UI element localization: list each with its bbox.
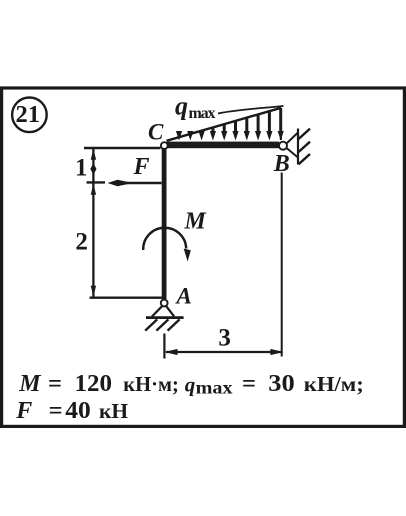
svg-text:q: q [175,92,188,121]
svg-text:1: 1 [75,155,88,182]
svg-text:30: 30 [268,371,295,397]
svg-text:F: F [15,398,32,424]
svg-text:кН·м;: кН·м; [123,372,179,396]
svg-text:=: = [49,398,63,424]
svg-text:21: 21 [16,101,41,128]
svg-text:F: F [133,154,150,180]
svg-text:кН: кН [99,399,128,423]
svg-text:кН/м;: кН/м; [304,372,364,396]
svg-text:q: q [185,373,196,397]
svg-text:M: M [184,209,208,235]
svg-text:max: max [196,378,233,398]
svg-text:120: 120 [75,371,113,397]
svg-text:2: 2 [75,229,88,256]
svg-text:M: M [18,371,42,397]
svg-text:C: C [148,120,164,145]
svg-text:40: 40 [65,398,91,424]
svg-text:=: = [48,371,62,397]
svg-text:3: 3 [218,325,231,352]
svg-text:A: A [175,284,192,309]
svg-text:max: max [189,105,216,122]
svg-text:=: = [242,371,256,397]
